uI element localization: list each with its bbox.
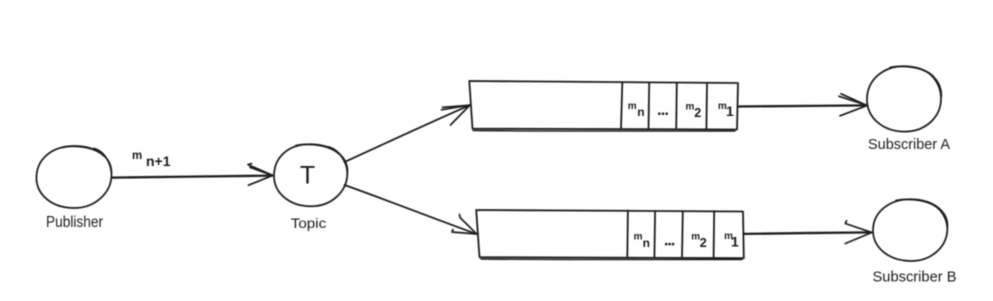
wire queue A to subscriber A <box>738 105 867 106</box>
svg-text:T: T <box>300 162 315 190</box>
arrowhead at queue B <box>452 215 477 235</box>
topic circle <box>274 144 348 206</box>
wire queue B to subscriber B <box>744 232 871 234</box>
svg-text:2: 2 <box>700 236 707 250</box>
arrowhead at queue A <box>442 105 471 125</box>
queue B cell label m_2 <box>691 232 707 251</box>
arrowhead at subscriber A <box>839 94 867 116</box>
wire topic to queue A <box>345 105 470 162</box>
svg-text:n+1: n+1 <box>146 153 171 169</box>
svg-text:Subscriber B: Subscriber B <box>873 269 957 286</box>
queue B divider 3 <box>681 211 684 258</box>
queue B divider 2 <box>653 211 656 258</box>
queue A rectangle <box>469 81 738 131</box>
queue A divider 3 <box>675 83 678 129</box>
queue A divider 4 <box>705 84 708 130</box>
svg-text:Publisher: Publisher <box>46 214 104 231</box>
label m n+1 <box>132 150 171 169</box>
arrowhead at topic <box>248 164 273 186</box>
queue A cell label dots <box>658 112 668 115</box>
queue B rectangle <box>476 210 744 260</box>
subscriber A circle <box>867 66 941 131</box>
queue A cell label m_1 <box>718 101 734 119</box>
svg-text:m: m <box>628 101 637 112</box>
svg-text:m: m <box>634 232 643 243</box>
queue A divider 1 <box>621 83 622 130</box>
queue A cell label m_2 <box>686 102 702 120</box>
svg-text:m: m <box>686 102 695 113</box>
svg-text:Subscriber A: Subscriber A <box>868 136 950 153</box>
queue B cell label m_n <box>634 232 650 250</box>
svg-text:n: n <box>643 236 650 250</box>
wire publisher to topic (arrow shaft) <box>113 176 273 178</box>
subscriber B circle <box>873 199 948 261</box>
arrowhead at subscriber B <box>845 221 872 244</box>
queue B divider 1 <box>626 211 629 258</box>
queue B divider 4 <box>713 211 716 258</box>
queue B cell label m_1 <box>724 231 739 249</box>
svg-text:1: 1 <box>731 233 739 249</box>
svg-text:2: 2 <box>694 106 701 120</box>
publisher circle <box>36 146 111 208</box>
queue A divider 2 <box>648 83 651 129</box>
queue A cell label m_n <box>628 101 645 119</box>
svg-text:m: m <box>132 150 142 162</box>
wire topic to queue B <box>345 185 477 234</box>
svg-text:n: n <box>637 105 644 119</box>
queue B cell label dots <box>665 243 674 246</box>
svg-text:1: 1 <box>726 103 734 119</box>
svg-text:Topic: Topic <box>291 216 327 231</box>
